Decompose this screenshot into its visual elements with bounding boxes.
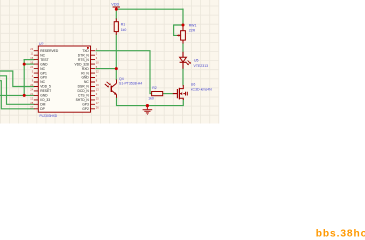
svg-text:NC: NC	[40, 53, 45, 57]
svg-text:CTS_N: CTS_N	[78, 94, 89, 98]
svg-text:RW1: RW1	[189, 23, 197, 27]
node GND2 junction	[23, 94, 26, 97]
svg-text:bbs.38hot.c: bbs.38hot.c	[316, 229, 365, 239]
svg-text:RESET: RESET	[40, 89, 51, 93]
svg-text:TEST: TEST	[40, 58, 48, 62]
svg-text:GP3: GP3	[82, 103, 89, 107]
svg-text:DP: DP	[40, 107, 45, 111]
node RXD junction	[115, 67, 118, 70]
svg-text:NC: NC	[84, 80, 89, 84]
svg-text:R1: R1	[121, 23, 126, 27]
svg-text:TXD: TXD	[82, 49, 89, 53]
svg-text:RI_N: RI_N	[81, 71, 89, 75]
wire VDD to RW1 top	[182, 9, 184, 25]
pin numbers right	[96, 47, 99, 109]
wire RW1 bottom to LED	[182, 44, 184, 52]
wire VDD top rail	[116, 8, 183, 10]
power VDD	[111, 2, 120, 9]
svg-text:Q4: Q4	[119, 77, 124, 81]
node GND junction	[23, 63, 26, 66]
svg-text:GND: GND	[81, 76, 89, 80]
svg-text:GP1: GP1	[40, 71, 47, 75]
wire LED to MOSFET drain	[182, 69, 184, 85]
svg-text:R2: R2	[152, 86, 157, 90]
wire TEST-GND vertical bus	[23, 60, 25, 96]
svg-text:1k0: 1k0	[121, 28, 127, 32]
svg-text:GND: GND	[40, 62, 48, 66]
wire GND2 long row	[0, 94, 34, 96]
wire R1 bottom to node RXD	[115, 35, 117, 80]
svg-text:GP0: GP0	[40, 76, 47, 80]
node ground junction	[146, 104, 149, 107]
svg-text:DTR_N: DTR_N	[78, 53, 90, 57]
svg-text:RTS_N: RTS_N	[78, 58, 89, 62]
wire GND row	[24, 63, 34, 65]
svg-text:VDD_5: VDD_5	[40, 85, 51, 89]
svg-text:S1-PT3538-A4: S1-PT3538-A4	[119, 82, 142, 86]
svg-text:VDD: VDD	[111, 2, 119, 6]
node RW1 junction	[182, 24, 185, 27]
svg-text:DSR_N: DSR_N	[78, 85, 90, 89]
wire RXD pin to node	[96, 68, 116, 70]
pin stubs left	[34, 51, 39, 109]
pin numbers left	[30, 47, 33, 109]
svg-text:NC: NC	[40, 67, 45, 71]
svg-text:1k0: 1k0	[148, 97, 154, 101]
wire to VDD_5 pin	[0, 71, 34, 87]
svg-text:22R: 22R	[189, 28, 196, 32]
svg-text:U5: U5	[194, 59, 199, 63]
wire TXD to R2	[96, 51, 152, 94]
svg-text:DM: DM	[40, 103, 45, 107]
op-amp U? body	[38, 46, 90, 112]
pin names left	[40, 49, 59, 111]
wire to DM pin	[0, 76, 34, 105]
svg-text:DCD_N: DCD_N	[77, 89, 89, 93]
wire R1 top stem	[115, 9, 117, 18]
node VDD junction	[115, 8, 118, 11]
wire to DP pin	[0, 81, 34, 109]
svg-text:SHTD_N: SHTD_N	[76, 98, 90, 102]
svg-text:PL2303HXD: PL2303HXD	[40, 114, 58, 118]
svg-text:U6: U6	[191, 82, 196, 86]
svg-text:NC: NC	[40, 80, 45, 84]
wire RW1 wiper loop	[174, 25, 183, 35]
wire bottom rail (emitter - ground - source)	[117, 98, 184, 106]
wire R2 to gate	[163, 93, 173, 95]
svg-text:VTE2313: VTE2313	[194, 64, 209, 68]
pin1 mark	[87, 47, 89, 49]
svg-text:VDD_328: VDD_328	[75, 62, 89, 66]
svg-text:RESERVED: RESERVED	[40, 49, 59, 53]
svg-text:GP2: GP2	[82, 107, 89, 111]
schematic sheet background	[0, 0, 219, 124]
svg-text:xC3D-kms4N: xC3D-kms4N	[191, 87, 212, 91]
pin stubs right	[91, 51, 96, 109]
wire TEST row	[24, 59, 34, 61]
svg-text:I/O_33: I/O_33	[40, 98, 50, 102]
svg-text:RXD: RXD	[82, 67, 90, 71]
svg-text:U?: U?	[39, 42, 44, 46]
pin names right	[75, 49, 90, 111]
svg-text:GND: GND	[40, 94, 48, 98]
